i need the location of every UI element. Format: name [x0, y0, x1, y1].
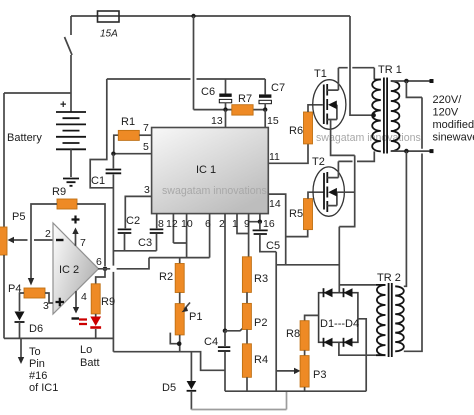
- wire +V drop from top rail to pin13 node: [193, 16, 195, 110]
- wire bridge bottom to TR2 left bottom: [339, 342, 376, 355]
- op-amp IC2: [53, 223, 99, 314]
- diode D5: [190, 352, 192, 381]
- wire pin12: [172, 214, 174, 243]
- capacitor C4: [224, 331, 226, 346]
- transistor T2: [313, 167, 344, 216]
- wire output drop bottom to TR2 right top: [404, 151, 407, 286]
- svg-text:D5: D5: [162, 382, 176, 394]
- svg-text:R3: R3: [254, 273, 268, 285]
- wire output line to R2 top: [149, 257, 210, 259]
- svg-text:3: 3: [144, 184, 150, 196]
- potentiometer P5: [0, 227, 7, 255]
- wire node line pin13 pin15: [194, 109, 266, 111]
- node TR1 center tap: [371, 113, 376, 118]
- svg-text:P2: P2: [254, 317, 267, 329]
- svg-text:4: 4: [81, 291, 87, 303]
- svg-text:120V: 120V: [433, 107, 459, 119]
- svg-text:10: 10: [181, 218, 193, 230]
- wire battery minus to ground: [70, 149, 72, 177]
- wire pin3 of IC2: [45, 293, 53, 303]
- ground: [63, 179, 79, 186]
- svg-text:6: 6: [205, 218, 211, 230]
- wire R6 top to T1 gate: [308, 105, 323, 112]
- svg-text:12: 12: [166, 218, 178, 230]
- wire R4 bottom: [246, 377, 248, 391]
- wire T1 drain to TR1 top with crossover gap: [338, 68, 374, 80]
- bridge rectifier D1-D4: [319, 293, 358, 343]
- svg-text:15: 15: [267, 115, 279, 127]
- svg-text:C2: C2: [126, 215, 140, 227]
- resistor R6: [304, 112, 313, 144]
- wire left rail P5 to bottom: [3, 255, 5, 338]
- wire ground run to D5 and C4: [113, 352, 225, 371]
- wire pin8 to C3: [156, 214, 158, 229]
- wire pin16 stub: [249, 214, 260, 222]
- wire P4 left to D6: [20, 293, 25, 311]
- diode D6: [15, 312, 25, 321]
- node pin6 of IC2: [103, 267, 108, 272]
- svg-text:8: 8: [158, 218, 164, 230]
- IC1 box: [152, 128, 269, 214]
- resistor R3: [242, 257, 251, 293]
- terminal output top: [430, 79, 434, 83]
- diode D4: [344, 338, 353, 347]
- wire T1 source down to ground trunk: [331, 120, 355, 156]
- resistor R7: [232, 105, 253, 115]
- svg-text:#16: #16: [29, 370, 47, 382]
- svg-text:swagatam innovations: swagatam innovations: [316, 132, 421, 144]
- diode D1: [324, 288, 333, 297]
- wire R8 to P3: [304, 350, 306, 355]
- svg-text:C1: C1: [91, 175, 105, 187]
- svg-text:R6: R6: [289, 125, 303, 137]
- svg-text:R1: R1: [121, 116, 135, 128]
- node pin15: [263, 107, 267, 111]
- transistor T1: [313, 80, 346, 130]
- wire pin10: [173, 214, 186, 258]
- svg-text:+: +: [60, 99, 66, 111]
- diode D3: [324, 338, 333, 347]
- svg-text:IC 1: IC 1: [196, 164, 216, 176]
- wire pin6 branch down to R9 LED: [96, 269, 105, 284]
- wire C5 trunk down to bottom rail: [275, 252, 277, 392]
- svg-text:D1---D4: D1---D4: [320, 318, 359, 330]
- svg-text:13: 13: [211, 115, 223, 127]
- capacitor C6: [225, 79, 227, 94]
- wire R9 left to P4 wiper arrow: [31, 204, 57, 278]
- svg-text:of IC1: of IC1: [29, 382, 58, 394]
- svg-text:7: 7: [143, 122, 149, 134]
- svg-text:D6: D6: [29, 323, 43, 335]
- wire switch to battery: [70, 55, 72, 112]
- wire R5 top to T2 gate: [308, 192, 324, 198]
- wire pin3 of IC1 to C2: [125, 196, 151, 228]
- svg-text:R7: R7: [238, 93, 252, 105]
- node pin13: [223, 107, 227, 111]
- svg-text:Lo: Lo: [80, 344, 92, 356]
- resistor R4: [242, 344, 251, 378]
- terminal output bottom: [430, 149, 434, 153]
- wire T2 drain to TR1 bottom with crossover gap: [338, 151, 374, 161]
- diode D2: [344, 288, 353, 297]
- wire pin2 of IC2 with P5 wiper arrow: [14, 239, 53, 241]
- svg-text:TR 1: TR 1: [378, 64, 402, 76]
- wire To Pin 16 arrow: [20, 338, 22, 357]
- svg-text:7: 7: [80, 237, 86, 249]
- battery B1: [56, 112, 86, 149]
- svg-text:T2: T2: [312, 156, 325, 168]
- wire output drop jog top to TR2 right bottom: [404, 81, 422, 351]
- LED Lo Batt: [95, 314, 97, 317]
- wire pin13 stub: [225, 110, 227, 128]
- wire pin11 to R6: [268, 144, 308, 163]
- svg-text:14: 14: [269, 198, 281, 210]
- resistor R1: [114, 135, 119, 154]
- svg-text:R5: R5: [289, 208, 303, 220]
- svg-text:15A: 15A: [100, 29, 118, 40]
- wire pin14 to R5: [268, 194, 307, 265]
- svg-text:3: 3: [43, 300, 49, 312]
- wire TR1 secondary top to output: [391, 80, 432, 82]
- svg-text:swagatam innovations: swagatam innovations: [162, 185, 267, 197]
- preset P3: [300, 356, 309, 387]
- wire branch to T2 source trunk: [276, 264, 339, 266]
- wire pin6 of IC1: [209, 214, 211, 258]
- wire pin4 V- arrow of IC2: [75, 291, 77, 307]
- wire P3 wiper arrow: [276, 370, 294, 372]
- svg-text:C6: C6: [201, 86, 215, 98]
- svg-text:To: To: [29, 346, 41, 358]
- wire battery plus to left rail: [4, 92, 71, 94]
- fuse F1: [98, 11, 120, 22]
- wire pin7: [139, 134, 151, 136]
- node TR1 sec bottom: [404, 149, 409, 154]
- node top rail junction: [191, 14, 195, 18]
- wire gray bottom rail: [191, 391, 286, 409]
- svg-text:R2: R2: [159, 271, 173, 283]
- svg-text:R9: R9: [101, 296, 115, 308]
- resistor R9 vertical: [91, 284, 100, 314]
- wire left rail down to P5: [3, 93, 5, 227]
- svg-text:C7: C7: [271, 82, 285, 94]
- wire TR1 secondary bottom to output: [391, 150, 432, 152]
- capacitor C5: [259, 222, 261, 230]
- svg-text:C5: C5: [266, 240, 280, 252]
- svg-text:5: 5: [143, 141, 149, 153]
- wire bottom rail: [225, 390, 366, 392]
- resistor R8: [300, 321, 309, 351]
- potentiometer P4: [24, 288, 45, 298]
- svg-text:R4: R4: [254, 354, 268, 366]
- svg-text:sinewave: sinewave: [433, 132, 474, 144]
- svg-text:1: 1: [232, 218, 238, 230]
- svg-text:R9: R9: [52, 186, 66, 198]
- svg-text:Battery: Battery: [7, 132, 42, 144]
- capacitor C3: [150, 229, 164, 233]
- wire top rail from switch to fuse: [71, 15, 350, 17]
- svg-text:P5: P5: [12, 211, 25, 223]
- wire ground rail y79 for C6 C7: [107, 78, 265, 80]
- wire left drop of y79 rail with jog to C1 bottom: [90, 79, 113, 188]
- wire bridge left to R8: [305, 315, 319, 320]
- wire ground trunk down to bridge: [339, 155, 354, 292]
- svg-text:R8: R8: [286, 328, 300, 340]
- svg-text:C4: C4: [204, 336, 218, 348]
- capacitor C7: [264, 79, 266, 94]
- svg-text:2: 2: [45, 228, 51, 240]
- wire P1 bottom: [179, 335, 181, 352]
- svg-text:C3: C3: [138, 237, 152, 249]
- wire +V rail down to TR1 center tap: [350, 16, 372, 115]
- wire R2 to P1: [179, 293, 181, 304]
- resistor R5: [304, 199, 313, 230]
- svg-text:9: 9: [244, 218, 250, 230]
- wire pin6 output to the right: [98, 258, 149, 269]
- wire R9 right down to pin6 node: [77, 204, 105, 266]
- svg-text:2: 2: [219, 218, 225, 230]
- node TR1 sec top: [404, 79, 409, 84]
- svg-text:P3: P3: [313, 369, 326, 381]
- wire bridge right to bottom rail: [358, 319, 366, 391]
- svg-text:16: 16: [263, 218, 275, 230]
- svg-text:11: 11: [269, 151, 280, 163]
- capacitor C1: [112, 154, 114, 169]
- node pin16: [258, 220, 262, 224]
- switch S1: [65, 16, 73, 55]
- wire IC2 bottom rail: [4, 337, 113, 339]
- svg-text:IC 2: IC 2: [59, 264, 79, 276]
- wire pin5: [113, 153, 151, 155]
- svg-text:Batt: Batt: [80, 357, 100, 369]
- wire T2 source to ground trunk: [337, 191, 355, 193]
- wire P2 wiper: [225, 326, 246, 331]
- svg-text:P1: P1: [189, 311, 202, 323]
- wire P3 bottom: [304, 387, 306, 391]
- svg-text:Pin: Pin: [29, 358, 45, 370]
- wire pin2 long drop: [224, 214, 226, 331]
- svg-text:TR 2: TR 2: [377, 272, 401, 284]
- svg-text:modified: modified: [433, 119, 474, 131]
- capacitor C2: [118, 229, 132, 233]
- wire ground line C2 C3: [113, 250, 156, 252]
- node P1 bottom: [177, 341, 182, 346]
- wire R3 to P2: [246, 292, 248, 303]
- node R1 C1 pin5: [111, 152, 115, 156]
- svg-text:220V/: 220V/: [433, 94, 463, 106]
- wire pins 1 and 9 bracket: [237, 214, 249, 257]
- wire P2 to R4: [246, 330, 248, 344]
- svg-text:6: 6: [96, 256, 102, 268]
- preset P1: [175, 304, 184, 335]
- wire TR2 left top: [339, 284, 376, 286]
- node pin2 P2 wiper: [223, 329, 228, 334]
- svg-text:T1: T1: [314, 68, 327, 80]
- wire pin7 V+ arrow of IC2: [75, 234, 77, 246]
- preset P2: [242, 303, 251, 329]
- resistor R2: [179, 258, 181, 264]
- wire P1 wiper hook: [170, 333, 179, 344]
- wire pin15 stub: [264, 110, 266, 128]
